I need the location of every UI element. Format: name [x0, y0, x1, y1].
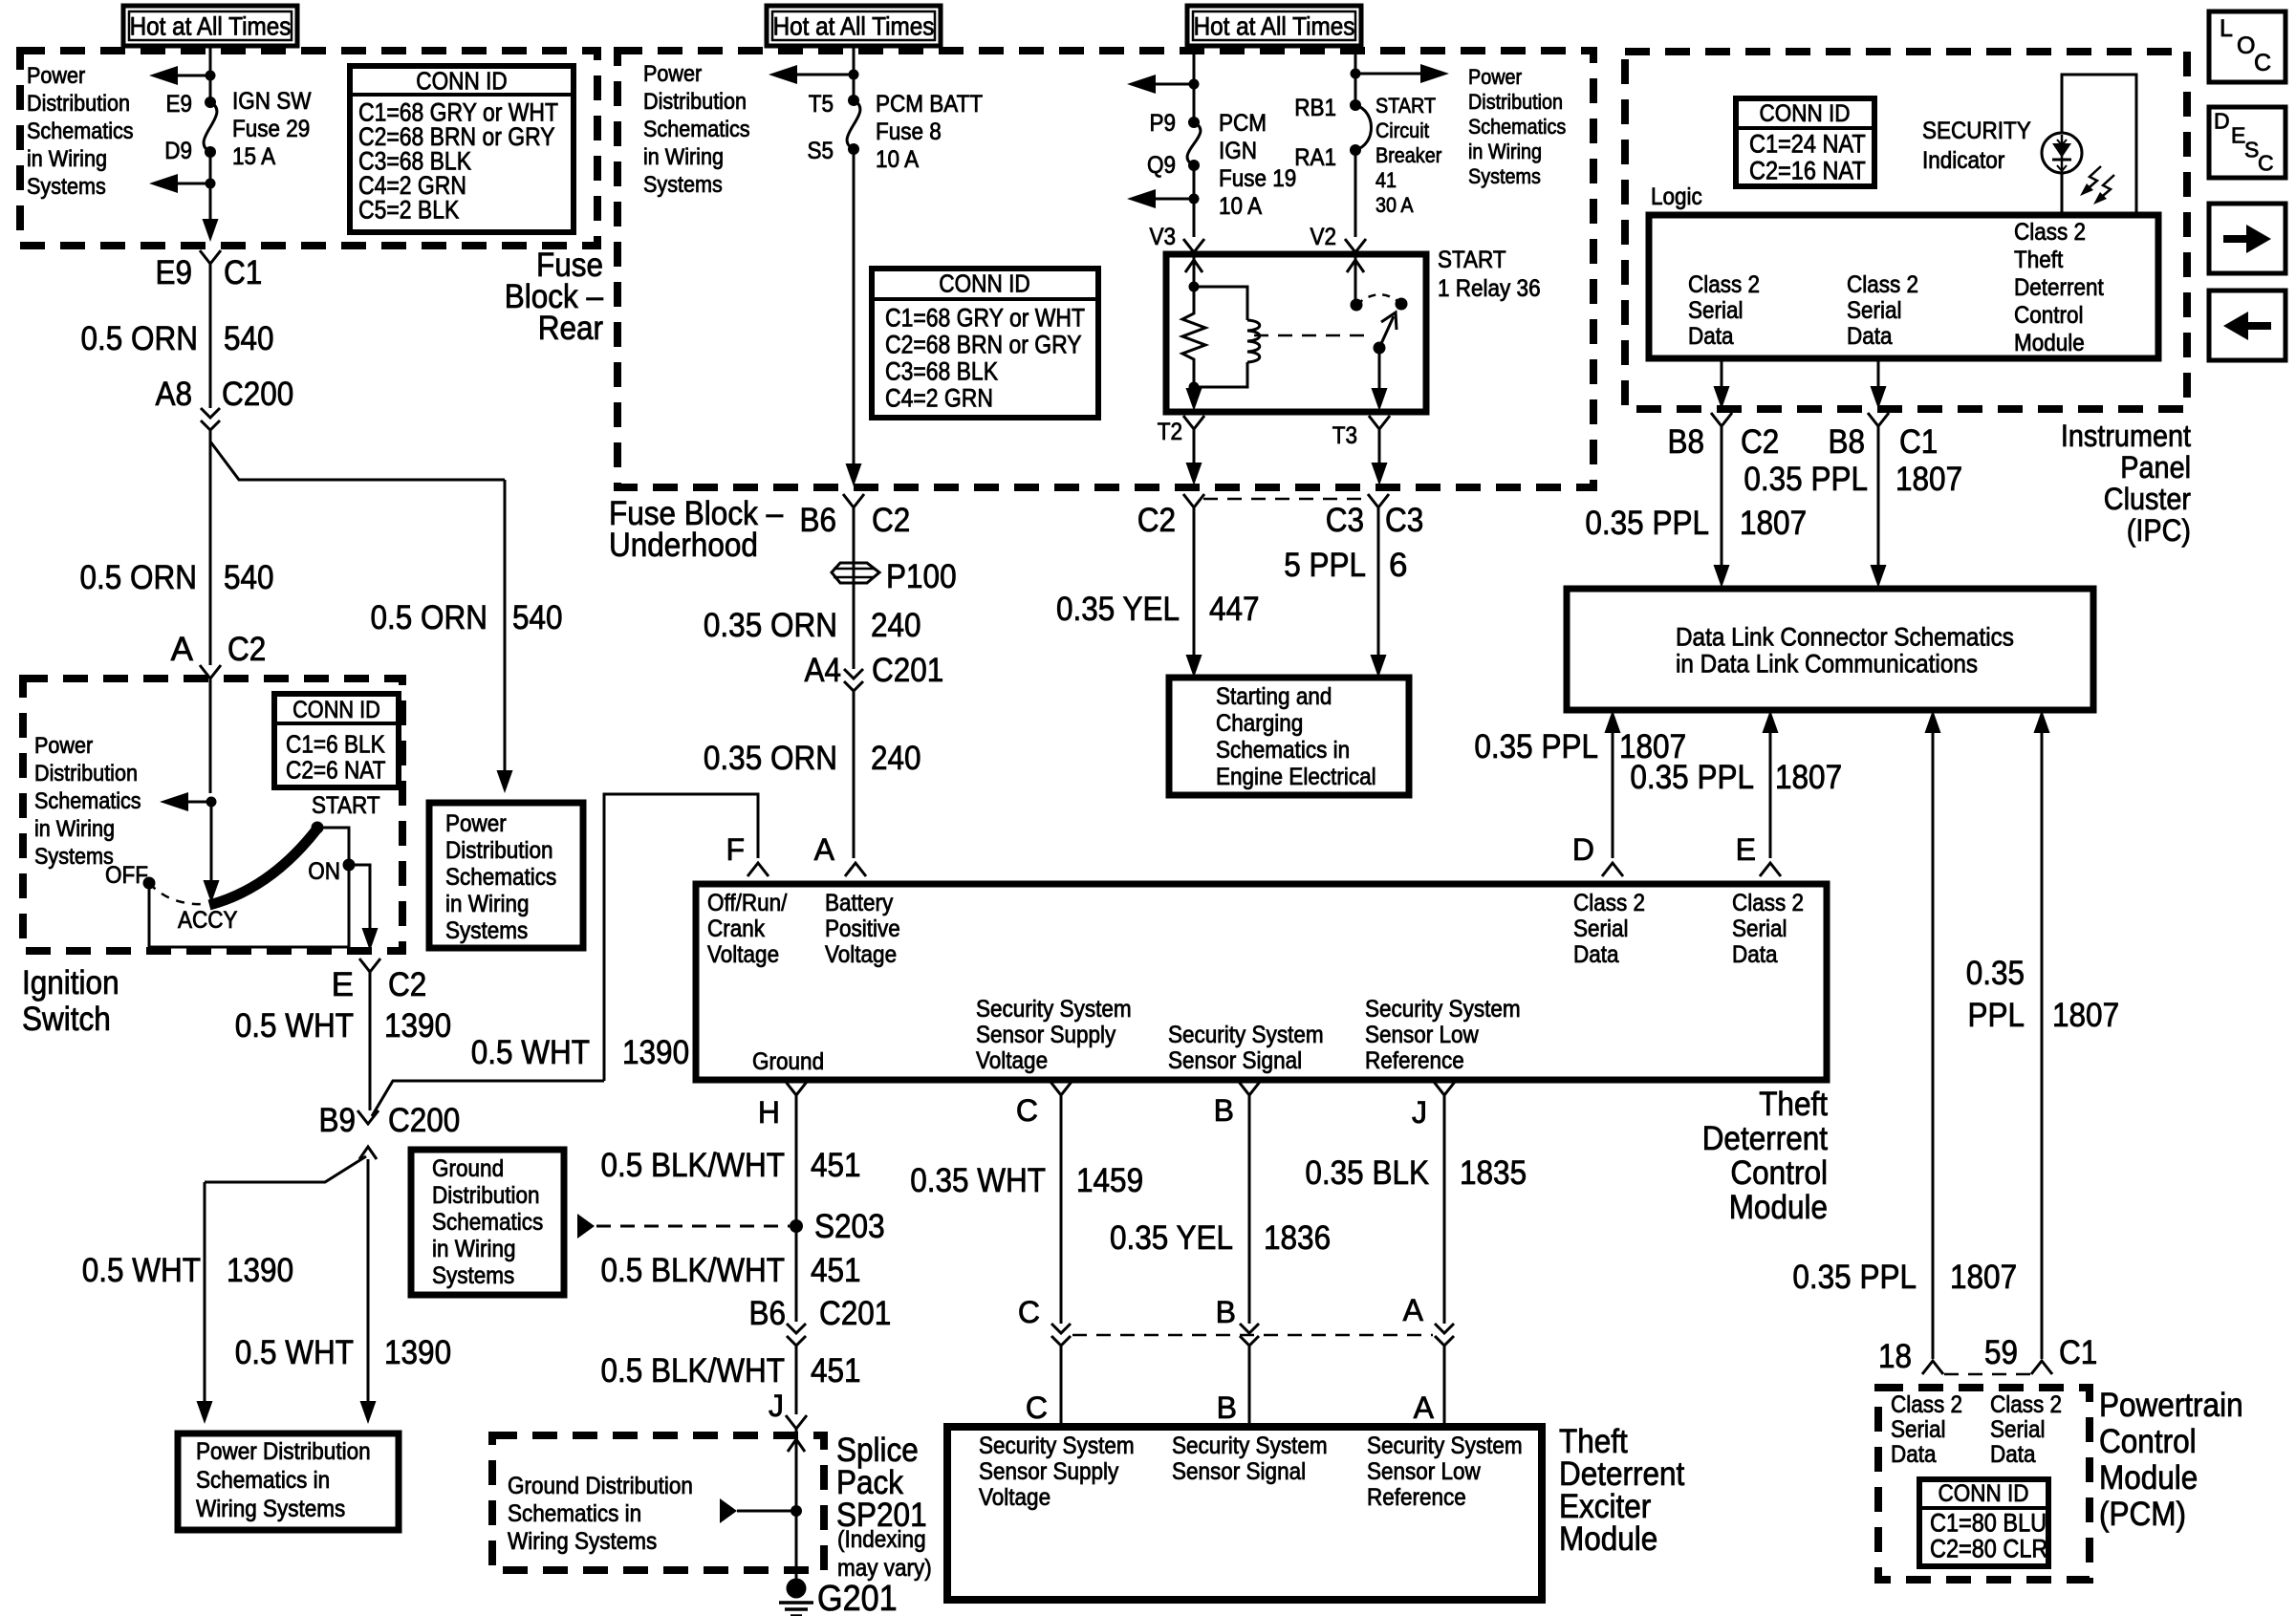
svg-text:Ground Distribution: Ground Distribution	[508, 1473, 693, 1499]
arrow: wire exits fuse block rear	[209, 218, 212, 222]
security indicator LED wires	[2062, 75, 2136, 215]
relay switch output arrow to T3	[1378, 348, 1381, 391]
svg-text:(Indexing: (Indexing	[837, 1526, 926, 1553]
CONN ID table (underhood)	[872, 269, 1098, 418]
svg-text:1459: 1459	[1076, 1162, 1143, 1199]
svg-text:CONN ID: CONN ID	[1939, 1480, 2029, 1507]
svg-text:B: B	[1217, 1390, 1237, 1425]
wires: connector row to exciter module	[1060, 1346, 1063, 1427]
relay resistor zigzag	[1182, 287, 1205, 387]
svg-text:0.5 ORN: 0.5 ORN	[81, 320, 199, 357]
connector B9 C200 inline	[357, 1110, 379, 1124]
connector J below TDCM	[1434, 1082, 1455, 1095]
svg-text:(PCM): (PCM)	[2099, 1496, 2186, 1533]
CONN ID table (IPC)	[1736, 98, 1874, 186]
svg-text:Voltage: Voltage	[979, 1484, 1051, 1511]
dashed box: Ignition Switch	[23, 679, 402, 951]
fuse F8 PCM BATT 10A	[848, 95, 859, 106]
svg-text:1807: 1807	[1950, 1259, 2017, 1296]
svg-text:0.5 BLK/WHT: 0.5 BLK/WHT	[601, 1147, 786, 1184]
svg-text:1807: 1807	[1740, 505, 1807, 542]
svg-text:T5: T5	[809, 91, 834, 118]
svg-text:Control: Control	[2099, 1423, 2197, 1460]
svg-text:B6: B6	[800, 502, 837, 539]
svg-text:E: E	[332, 966, 354, 1003]
LED light rays (lightning arrows)	[2084, 166, 2101, 192]
svg-text:F: F	[726, 832, 745, 867]
connector T3 below relay	[1369, 416, 1390, 429]
svg-text:Switch: Switch	[22, 1001, 111, 1038]
svg-text:RA1: RA1	[1294, 144, 1336, 171]
svg-text:Theft: Theft	[1759, 1086, 1828, 1123]
CONN ID table (fuse block rear)	[350, 66, 574, 232]
svg-text:Sensor Signal: Sensor Signal	[1172, 1458, 1306, 1485]
svg-text:C: C	[2258, 151, 2274, 176]
dashed box: Fuse Block - Rear	[20, 51, 597, 246]
svg-text:Power: Power	[445, 810, 507, 837]
svg-text:in Wiring: in Wiring	[445, 891, 530, 917]
svg-text:Systems: Systems	[445, 917, 528, 944]
svg-text:P100: P100	[886, 558, 957, 595]
svg-text:1 Relay 36: 1 Relay 36	[1438, 275, 1541, 302]
svg-text:Crank: Crank	[707, 916, 765, 942]
wire: breaker to relay	[1354, 150, 1357, 237]
svg-text:Distribution: Distribution	[643, 89, 747, 115]
svg-text:Ground: Ground	[752, 1048, 824, 1075]
wire: branch left down to power distribution	[205, 1156, 366, 1182]
svg-text:A: A	[171, 631, 194, 668]
svg-text:0.35 PPL: 0.35 PPL	[1744, 461, 1868, 498]
svg-text:H: H	[758, 1095, 780, 1130]
svg-text:may vary): may vary)	[837, 1555, 932, 1582]
wire: hot feed to PCM IGN fuse 19	[1193, 46, 1196, 122]
svg-text:Deterrent: Deterrent	[2014, 274, 2104, 301]
svg-text:1390: 1390	[384, 1007, 451, 1045]
svg-text:Wiring Systems: Wiring Systems	[508, 1528, 657, 1555]
svg-text:Reference: Reference	[1367, 1484, 1466, 1511]
svg-text:Engine Electrical: Engine Electrical	[1216, 764, 1376, 790]
box: Theft Deterrent Exciter Module	[947, 1427, 1542, 1600]
svg-text:in Wiring: in Wiring	[432, 1236, 516, 1262]
svg-text:540: 540	[224, 559, 274, 596]
relay switch common feed with up arrow	[1354, 254, 1357, 305]
junction dot V3 branch	[1189, 194, 1200, 205]
svg-text:Underhood: Underhood	[609, 527, 758, 564]
svg-text:Fuse 29: Fuse 29	[232, 116, 310, 142]
svg-text:CONN ID: CONN ID	[1760, 100, 1851, 127]
svg-text:41: 41	[1375, 168, 1397, 192]
svg-text:START: START	[1438, 247, 1506, 273]
svg-text:PPL: PPL	[1968, 997, 2025, 1034]
svg-text:C1: C1	[1899, 423, 1938, 461]
svg-text:in Wiring: in Wiring	[1468, 140, 1542, 163]
svg-text:Data Link Connector Schematics: Data Link Connector Schematics	[1676, 622, 2014, 651]
wire: hot feed to PCM BATT fuse 8	[853, 46, 856, 100]
relay switch common contact dot	[1351, 299, 1363, 312]
svg-text:C1: C1	[224, 254, 262, 291]
svg-text:C: C	[1016, 1093, 1038, 1128]
svg-text:18: 18	[1878, 1338, 1912, 1375]
svg-text:C2: C2	[227, 631, 266, 668]
svg-text:0.35: 0.35	[1966, 955, 2025, 992]
connector B below TDCM	[1239, 1082, 1260, 1095]
svg-text:Powertrain: Powertrain	[2099, 1387, 2243, 1424]
svg-text:A4: A4	[805, 652, 842, 689]
svg-text:Module: Module	[2014, 330, 2085, 356]
svg-text:Data: Data	[1732, 941, 1778, 968]
svg-text:10 A: 10 A	[1219, 193, 1262, 220]
svg-text:C2=6 NAT: C2=6 NAT	[286, 756, 386, 785]
svg-text:Ignition: Ignition	[22, 964, 119, 1002]
wire: logic output B8 C1	[1877, 358, 1880, 388]
nav box DESC	[2209, 107, 2285, 178]
svg-text:Distribution: Distribution	[27, 91, 130, 117]
svg-text:PCM: PCM	[1219, 110, 1267, 137]
svg-text:B9: B9	[319, 1102, 357, 1139]
wire: left branch inside ignition switch	[188, 801, 211, 804]
wire: below C200	[209, 430, 212, 442]
svg-text:Module: Module	[1729, 1189, 1828, 1226]
svg-text:Serial: Serial	[1688, 297, 1744, 324]
svg-text:451: 451	[811, 1352, 861, 1390]
svg-text:IGN: IGN	[1219, 138, 1257, 164]
CONN ID table (PCM)	[1919, 1479, 2048, 1566]
wire: right branch to power distribution	[1355, 73, 1420, 75]
relay coil	[1194, 287, 1247, 320]
svg-text:Schematics: Schematics	[445, 864, 556, 891]
svg-text:Schematics: Schematics	[34, 788, 141, 814]
svg-text:Data: Data	[1847, 323, 1893, 350]
svg-text:C1: C1	[2059, 1334, 2097, 1371]
circuit breaker 41 30A	[1350, 99, 1361, 111]
svg-text:IGN SW: IGN SW	[232, 88, 312, 115]
wire: Hot at All Times to IGN SW fuse 29	[209, 46, 212, 102]
box: Data Link Connector Schematics in Data Link Communications	[1567, 589, 2093, 710]
svg-text:0.5 WHT: 0.5 WHT	[471, 1034, 590, 1071]
svg-text:Q9: Q9	[1147, 152, 1176, 179]
junction dot fuse19 feed	[1189, 79, 1200, 90]
connector E into TDCM	[1760, 863, 1781, 876]
wire: C201 to TDCM pin A	[853, 691, 856, 858]
svg-text:C2: C2	[872, 502, 910, 539]
svg-text:0.35 WHT: 0.35 WHT	[910, 1162, 1046, 1199]
svg-text:Systems: Systems	[34, 844, 114, 870]
svg-text:Indicator: Indicator	[1922, 147, 2004, 174]
svg-text:Security System: Security System	[1168, 1022, 1324, 1048]
svg-text:Theft: Theft	[2014, 247, 2063, 273]
wire: branch right to TDCM pin F (0.5 WHT)	[372, 1081, 604, 1116]
svg-text:Schematics: Schematics	[432, 1209, 543, 1236]
svg-text:1836: 1836	[1264, 1219, 1331, 1257]
wire: fuse 8 down to C2 connector	[853, 149, 856, 466]
connector C2 (starter feed)	[1183, 494, 1204, 507]
svg-text:Class 2: Class 2	[1990, 1391, 2062, 1418]
svg-text:CONN ID: CONN ID	[292, 697, 380, 723]
svg-text:Wiring Systems: Wiring Systems	[196, 1496, 345, 1522]
wire: TDCM E to DLC	[1769, 731, 1772, 858]
dashed link 18-59 connector	[1944, 1373, 2030, 1376]
svg-text:451: 451	[811, 1252, 861, 1289]
svg-text:Fuse 19: Fuse 19	[1219, 165, 1296, 192]
svg-text:Fuse 8: Fuse 8	[876, 119, 942, 145]
svg-text:Class 2: Class 2	[1573, 890, 1645, 916]
svg-text:Control: Control	[2014, 302, 2084, 329]
dashed box: Instrument Panel Cluster IPC	[1625, 52, 2187, 409]
svg-text:Battery: Battery	[825, 890, 894, 916]
svg-text:C200: C200	[222, 376, 293, 413]
svg-text:B: B	[1214, 1093, 1234, 1128]
svg-text:Serial: Serial	[1732, 916, 1787, 942]
svg-text:240: 240	[871, 607, 921, 644]
svg-text:P9: P9	[1150, 110, 1177, 137]
svg-text:Power: Power	[27, 63, 85, 89]
svg-text:D: D	[1572, 832, 1594, 867]
svg-text:G201: G201	[817, 1579, 898, 1616]
svg-text:Schematics in: Schematics in	[196, 1467, 330, 1494]
wire: DLC to PCM pin 18	[1932, 731, 1935, 1359]
fuse F19 PCM IGN 10A	[1188, 117, 1200, 128]
svg-text:A: A	[1403, 1293, 1424, 1327]
svg-text:E9: E9	[166, 91, 193, 118]
svg-text:1835: 1835	[1460, 1154, 1527, 1192]
svg-text:Data: Data	[1891, 1441, 1937, 1468]
wire: branch to power distribution box (0.5 ORN)	[210, 442, 505, 480]
svg-text:A: A	[1414, 1390, 1435, 1425]
wire: left branch (fuse19)	[1156, 83, 1194, 86]
svg-text:Ground: Ground	[432, 1155, 504, 1182]
svg-text:Rear: Rear	[538, 310, 604, 347]
dashed box: ground distribution (splice pack)	[492, 1435, 824, 1570]
svg-text:OFF: OFF	[105, 862, 148, 889]
svg-text:C1=80 BLU: C1=80 BLU	[1930, 1508, 2047, 1537]
arrows into starting and charging box	[1186, 655, 1202, 678]
wire: logic output B8 C2	[1721, 358, 1723, 388]
junction dot fuse8 feed	[849, 70, 859, 80]
svg-text:0.5 WHT: 0.5 WHT	[82, 1252, 201, 1289]
svg-text:C1=68 GRY or WHT: C1=68 GRY or WHT	[885, 303, 1085, 332]
ground G201	[787, 1579, 807, 1599]
LED symbol circle	[2042, 133, 2082, 173]
svg-text:Voltage: Voltage	[976, 1047, 1048, 1074]
svg-text:CONN ID: CONN ID	[416, 67, 508, 96]
relay junction dot bottom	[1189, 382, 1200, 393]
svg-text:540: 540	[224, 320, 274, 357]
svg-text:C2: C2	[1137, 502, 1176, 539]
svg-text:Sensor Low: Sensor Low	[1367, 1458, 1482, 1485]
svg-text:540: 540	[512, 599, 563, 636]
svg-text:0.35 PPL: 0.35 PPL	[1474, 728, 1598, 765]
svg-text:ACCY: ACCY	[178, 907, 238, 934]
box: Power Distribution Schematics in Wiring Systems (bottom left)	[178, 1433, 399, 1530]
wire: P100 to C201	[853, 584, 856, 669]
svg-text:Distribution: Distribution	[34, 761, 138, 786]
connector A into TDCM	[845, 863, 866, 876]
svg-text:S203: S203	[814, 1208, 885, 1245]
relay switch arm	[1379, 316, 1394, 348]
svg-text:240: 240	[871, 740, 921, 777]
svg-text:Breaker: Breaker	[1375, 143, 1441, 167]
connector V2 into relay	[1345, 239, 1366, 252]
svg-text:Instrument: Instrument	[2061, 419, 2191, 453]
contact OFF	[143, 877, 156, 890]
label: Hot at All Times box	[767, 6, 941, 46]
svg-text:C1=6 BLK: C1=6 BLK	[286, 730, 385, 759]
svg-text:0.5 BLK/WHT: 0.5 BLK/WHT	[601, 1352, 786, 1390]
svg-text:Systems: Systems	[27, 174, 106, 200]
svg-text:Security System: Security System	[1365, 996, 1521, 1023]
svg-text:Security System: Security System	[1172, 1433, 1328, 1459]
svg-text:0.5 ORN: 0.5 ORN	[80, 559, 198, 596]
box: Ground Distribution Schematics in Wiring Systems (left)	[411, 1150, 564, 1295]
svg-text:D9: D9	[164, 138, 192, 164]
connector C below TDCM	[1051, 1082, 1072, 1095]
svg-text:C3=68 BLK: C3=68 BLK	[885, 356, 998, 385]
connector B8 C2 below IPC	[1711, 413, 1732, 426]
relay coil output arrow to T2	[1193, 387, 1196, 391]
box: Theft Deterrent Control Module	[696, 884, 1827, 1080]
svg-text:CONN ID: CONN ID	[939, 269, 1030, 298]
svg-text:0.35 PPL: 0.35 PPL	[1630, 759, 1754, 796]
wire: TDCM D to DLC	[1612, 731, 1614, 858]
svg-text:0.35 BLK: 0.35 BLK	[1305, 1154, 1429, 1192]
svg-text:Power: Power	[1468, 65, 1522, 89]
svg-text:C2=80 CLR: C2=80 CLR	[1930, 1534, 2047, 1562]
svg-text:Systems: Systems	[432, 1262, 514, 1289]
svg-text:1390: 1390	[227, 1252, 293, 1289]
junction dot breaker feed	[1351, 69, 1361, 79]
svg-text:ON: ON	[308, 858, 340, 885]
label: Hot at All Times box	[1187, 6, 1361, 46]
svg-text:Schematics: Schematics	[643, 117, 750, 142]
svg-text:in Data Link Communications: in Data Link Communications	[1676, 649, 1978, 678]
svg-text:0.35 PPL: 0.35 PPL	[1792, 1259, 1917, 1296]
svg-text:Data: Data	[1573, 941, 1619, 968]
wire: DLC to PCM pin 59	[2041, 731, 2044, 1359]
svg-text:V3: V3	[1150, 224, 1177, 250]
svg-text:C5=2 BLK: C5=2 BLK	[358, 196, 459, 225]
svg-text:Data: Data	[1688, 323, 1734, 350]
reference arrow to splice SP201	[737, 1510, 796, 1513]
svg-text:Charging: Charging	[1216, 710, 1303, 737]
svg-text:START: START	[1375, 94, 1436, 118]
connector E C2 below ignition switch	[359, 959, 380, 972]
svg-text:0.35 YEL: 0.35 YEL	[1110, 1219, 1233, 1257]
grommet P100	[853, 562, 856, 584]
junction dot ignition feed	[206, 797, 217, 808]
dashed arc OFF to rotor	[149, 883, 206, 904]
svg-text:in Wiring: in Wiring	[34, 816, 115, 842]
svg-text:B: B	[1216, 1295, 1236, 1329]
svg-text:Module: Module	[1559, 1520, 1657, 1558]
junction dot lower branch	[206, 179, 216, 189]
svg-text:C4=2 GRN: C4=2 GRN	[885, 383, 993, 412]
svg-text:59: 59	[1984, 1334, 2018, 1371]
connector 18 into PCM	[1922, 1361, 1943, 1374]
connector B8 C1 below IPC	[1868, 413, 1889, 426]
junction dot SP201	[791, 1505, 802, 1517]
relay dashed arc between contacts	[1356, 294, 1401, 305]
svg-text:Logic: Logic	[1651, 183, 1702, 210]
svg-text:C2: C2	[388, 966, 426, 1003]
svg-text:Systems: Systems	[1468, 164, 1541, 188]
svg-text:0.5 BLK/WHT: 0.5 BLK/WHT	[601, 1252, 786, 1289]
connector V3 into relay	[1183, 239, 1204, 252]
connector T2 below relay	[1183, 416, 1204, 429]
svg-text:0.35 PPL: 0.35 PPL	[1585, 505, 1709, 542]
svg-text:Schematics in: Schematics in	[1216, 737, 1350, 764]
svg-text:SECURITY: SECURITY	[1922, 118, 2031, 144]
relay switch NO contact dot	[1396, 298, 1408, 311]
svg-text:Sensor Supply: Sensor Supply	[976, 1022, 1116, 1048]
svg-text:1390: 1390	[384, 1334, 451, 1371]
svg-text:1807: 1807	[1775, 759, 1842, 796]
contact ON junction	[343, 859, 356, 872]
contact START	[312, 822, 324, 834]
svg-text:Power: Power	[34, 733, 93, 759]
wire: left branch (underhood)	[797, 74, 854, 76]
svg-text:START: START	[312, 792, 380, 819]
svg-text:L: L	[2220, 15, 2233, 42]
dashed connector link C2 to C3	[1203, 498, 1369, 501]
connector A C2 into ignition switch	[200, 665, 221, 679]
svg-text:C: C	[2254, 50, 2271, 76]
svg-text:S5: S5	[808, 138, 834, 164]
svg-text:Sensor Low: Sensor Low	[1365, 1022, 1480, 1048]
svg-text:O: O	[2237, 32, 2255, 59]
svg-text:30 A: 30 A	[1375, 193, 1414, 217]
svg-text:15 A: 15 A	[232, 143, 275, 170]
nav box arrow right	[2209, 204, 2285, 273]
svg-text:A8: A8	[156, 376, 193, 413]
svg-text:0.5 WHT: 0.5 WHT	[235, 1334, 354, 1371]
svg-text:C1=24 NAT: C1=24 NAT	[1749, 129, 1866, 158]
svg-text:Security System: Security System	[1367, 1433, 1523, 1459]
box: Starting and Charging Schematics in Engine Electrical	[1169, 678, 1409, 795]
svg-text:447: 447	[1209, 591, 1260, 628]
svg-text:Control: Control	[1730, 1154, 1828, 1192]
svg-text:Class 2: Class 2	[1688, 271, 1760, 298]
svg-text:0.35 ORN: 0.35 ORN	[704, 740, 837, 777]
connector C3 C3 (starter feed)	[1368, 494, 1389, 507]
svg-text:Cluster: Cluster	[2104, 482, 2192, 516]
svg-text:5 PPL: 5 PPL	[1284, 547, 1366, 584]
svg-text:Schematics: Schematics	[1468, 115, 1566, 139]
svg-text:C3: C3	[1326, 502, 1364, 539]
svg-text:10 A: 10 A	[876, 146, 919, 173]
svg-text:Power Distribution: Power Distribution	[196, 1438, 371, 1465]
svg-text:Circuit: Circuit	[1375, 119, 1429, 142]
connector 59 into PCM	[2031, 1361, 2052, 1374]
svg-text:J: J	[1412, 1095, 1427, 1130]
logic box (theft deterrent control logic in IPC)	[1649, 215, 2158, 358]
dashed reference into S203	[596, 1225, 790, 1228]
svg-text:Hot at All Times: Hot at All Times	[130, 11, 292, 40]
svg-text:Serial: Serial	[1847, 297, 1902, 324]
arrows into data link connector box	[1714, 565, 1730, 588]
connector J into splice pack	[786, 1415, 807, 1429]
wire: down to switch rotor	[210, 802, 213, 881]
wire: below fuse 29	[209, 152, 212, 222]
svg-text:0.5 WHT: 0.5 WHT	[235, 1007, 354, 1045]
wire: left branch to power distribution (lower)	[178, 183, 210, 185]
connector F into TDCM	[747, 863, 769, 876]
svg-text:in Wiring: in Wiring	[643, 144, 724, 170]
svg-text:1807: 1807	[1895, 461, 1962, 498]
connector H below TDCM	[786, 1082, 807, 1095]
svg-text:J: J	[769, 1389, 784, 1423]
svg-text:A: A	[814, 832, 835, 867]
svg-text:0.35 ORN: 0.35 ORN	[704, 607, 837, 644]
